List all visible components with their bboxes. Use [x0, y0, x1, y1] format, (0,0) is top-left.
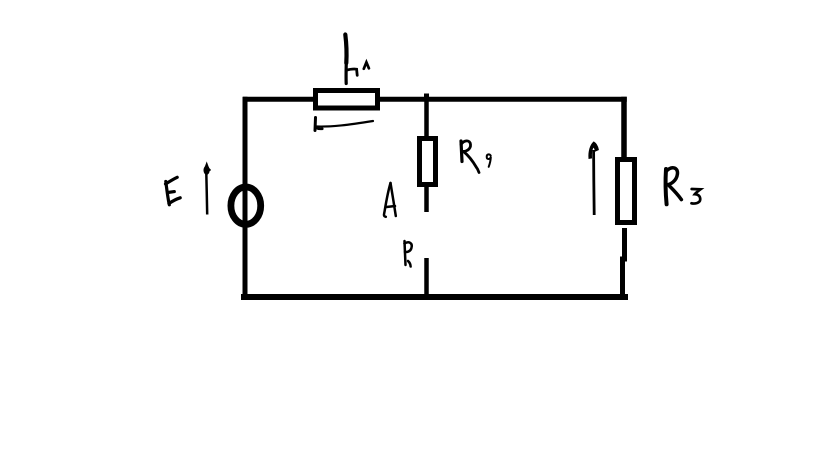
resistor R1 [316, 91, 378, 109]
resistor R2 [420, 139, 436, 185]
wire: middle branch below R2 (ends open at node A) [424, 186, 429, 212]
wire: top rail right segment [379, 97, 627, 102]
label R2 (handwritten) [461, 141, 491, 173]
wire: middle branch stub from bottom rail (node B up) [424, 258, 429, 296]
node: junction dot on top rail [424, 94, 429, 100]
arrow: EMF direction beside E (upward) [204, 163, 212, 215]
wire: middle branch upper (junction down to R2) [424, 96, 429, 137]
wire: bottom rail [241, 294, 628, 300]
label node B (handwritten) [405, 241, 412, 267]
wire: top rail left segment [243, 97, 314, 102]
wire: left branch (top-left corner down through source to bottom-left corner) [243, 97, 248, 299]
source E (circle) [231, 187, 261, 224]
wire: right branch lower (R3 down to bottom rail, with jog) [623, 228, 625, 295]
arrow: current direction below R1 (leftward hooked line) [315, 118, 373, 131]
wire: right branch upper (top-right corner down to R3) [621, 97, 627, 158]
label E (handwritten) [166, 177, 181, 205]
label R3 (handwritten) [666, 168, 701, 205]
label I1 above R1 (handwritten stroke with hook) [345, 35, 369, 84]
arrow: current direction beside R3 (upward) [589, 142, 599, 215]
label node A (handwritten) [384, 183, 396, 217]
resistor R3 [618, 160, 635, 223]
